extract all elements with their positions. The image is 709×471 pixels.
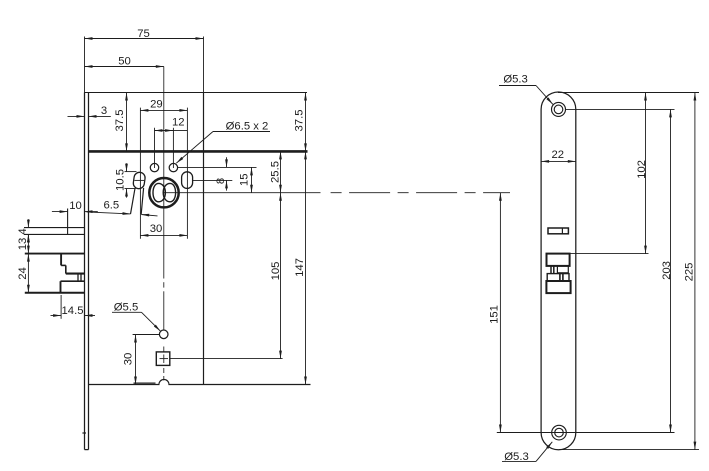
dim 6.5 [87, 212, 131, 214]
svg-text:10: 10 [69, 200, 82, 212]
latch lever slant lines [131, 188, 136, 214]
capsule hole left (tilted) [133, 172, 146, 190]
spindle square [156, 352, 170, 366]
svg-text:Ø5.3: Ø5.3 [503, 74, 528, 86]
deadbolt bottom line D [25, 292, 85, 294]
svg-text:147: 147 [294, 258, 306, 277]
hub butterfly follower hole [153, 183, 165, 201]
svg-text:102: 102 [636, 160, 648, 179]
dim 12 [155, 130, 174, 132]
faceplate front edge [84, 37, 86, 93]
ext line top hole center [566, 108, 675, 110]
dim 105 [280, 193, 282, 359]
leader O6.5x2 [213, 131, 270, 133]
ext line left screw hole [154, 128, 156, 168]
svg-text:151: 151 [489, 305, 501, 324]
svg-text:Ø6.5 x 2: Ø6.5 x 2 [226, 120, 269, 132]
short line above bottom edge [134, 382, 156, 384]
hub circle [149, 178, 178, 207]
ext line plate top [558, 92, 699, 94]
dim 151 [499, 193, 501, 433]
svg-text:15: 15 [239, 174, 251, 187]
top screw hole [552, 102, 566, 116]
deadbolt left tab [550, 266, 552, 273]
svg-text:Ø5.3: Ø5.3 [504, 451, 529, 463]
dim 37.5 left [126, 93, 128, 152]
svg-text:25.5: 25.5 [270, 161, 282, 183]
leader O5.3 top [499, 85, 536, 87]
svg-text:10.5: 10.5 [114, 169, 126, 191]
faceplate front view [541, 92, 576, 450]
dim 22 [541, 160, 576, 162]
ext line left capsule center [139, 108, 141, 239]
latch slot [548, 228, 568, 234]
svg-text:225: 225 [684, 263, 696, 282]
deadbolt middle row [547, 274, 569, 281]
svg-text:14.5: 14.5 [62, 305, 84, 317]
latch bolt bottom line B [24, 233, 85, 235]
vertical centerline through hub [163, 67, 165, 279]
deadbolt lower block [546, 281, 570, 293]
svg-text:37.5: 37.5 [294, 110, 306, 132]
svg-text:50: 50 [118, 56, 131, 68]
ext line right screw hole [172, 128, 174, 168]
dim 13 [27, 234, 29, 253]
dim 24 [27, 254, 29, 293]
ext line spindle square level [170, 358, 283, 360]
leader O5.3 bottom [502, 460, 536, 462]
svg-text:3: 3 [101, 105, 107, 117]
svg-text:Ø5.5: Ø5.5 [114, 302, 139, 314]
deadbolt aperture upper block [547, 254, 570, 266]
svg-text:30: 30 [150, 223, 163, 235]
bottom screw hole [552, 425, 567, 440]
svg-text:37.5: 37.5 [114, 110, 126, 132]
horizontal centerline to right view [164, 192, 321, 194]
dim 10 [52, 211, 68, 213]
thick horizontal reference line [89, 150, 308, 153]
dim 102 [645, 93, 647, 254]
svg-text:12: 12 [172, 117, 185, 129]
ext line plate bottom [559, 449, 699, 451]
capsule hole right [182, 172, 193, 189]
screw hole level tick on faceplate edge [82, 432, 86, 434]
ext line deadbolt aperture top [570, 253, 649, 255]
svg-text:29: 29 [150, 99, 163, 111]
dim 10.5 [126, 163, 128, 171]
cylinder hole 5.5 [159, 330, 168, 339]
faceplate back edge [88, 93, 90, 450]
leader O5.5 [112, 311, 142, 313]
dim 8 [226, 157, 228, 167]
dim 3 [68, 115, 85, 117]
dim 37.5 right [305, 93, 307, 152]
dim 75 [85, 38, 204, 40]
svg-text:24: 24 [17, 267, 29, 280]
ext line screw hole level [178, 166, 257, 168]
dim 25.5 [280, 151, 282, 192]
faceplate bottom cap [85, 449, 89, 451]
svg-text:22: 22 [552, 149, 565, 161]
deadbolt profile [60, 254, 62, 266]
dim 30 bottom [135, 335, 137, 385]
dim 30 hub [140, 234, 187, 236]
ext line right capsule center [186, 108, 188, 239]
deadbolt small rect [557, 266, 568, 273]
svg-text:203: 203 [661, 261, 673, 280]
svg-text:4: 4 [17, 228, 29, 234]
dim 14.5 [51, 315, 62, 317]
dim 50 [85, 66, 164, 68]
screw hole left [150, 163, 158, 171]
latch bolt front face [67, 209, 69, 235]
case bottom edge with notch [89, 379, 311, 384]
dim 147 [305, 151, 307, 384]
dim 4 [27, 219, 29, 227]
dim 203 [670, 109, 672, 432]
ext line bottom hole center [497, 432, 675, 434]
dim 15 [251, 167, 253, 192]
case back edge [203, 37, 205, 93]
svg-text:6.5: 6.5 [103, 200, 119, 212]
ext line capsule level [193, 179, 233, 181]
svg-text:30: 30 [123, 353, 135, 366]
svg-text:105: 105 [270, 262, 282, 281]
case top edge [85, 92, 308, 94]
svg-text:13: 13 [17, 238, 29, 251]
deadbolt top line C [25, 253, 85, 255]
dim 29 [140, 109, 187, 111]
latch bolt top line A [24, 227, 85, 229]
dim 225 [694, 93, 696, 450]
screw hole right [169, 163, 177, 171]
svg-text:8: 8 [215, 178, 227, 184]
svg-text:75: 75 [137, 28, 150, 40]
